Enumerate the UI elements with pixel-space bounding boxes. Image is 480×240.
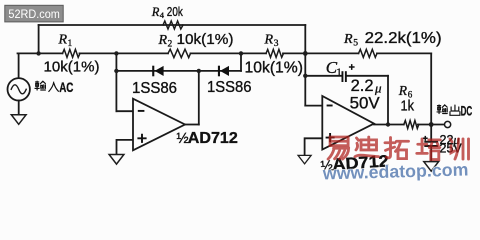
svg-text:½: ½ (177, 131, 189, 147)
svg-text:4: 4 (160, 10, 165, 20)
svg-text:10k(1%): 10k(1%) (177, 31, 234, 48)
svg-text:R: R (343, 32, 353, 47)
svg-text:10k(1%): 10k(1%) (44, 59, 100, 76)
svg-text:R: R (264, 33, 274, 48)
svg-text:5: 5 (353, 39, 358, 49)
svg-text:AC: AC (59, 80, 73, 95)
svg-text:R: R (58, 33, 68, 48)
svg-text:www.edatop.com: www.edatop.com (322, 159, 469, 183)
svg-text:3: 3 (274, 39, 279, 49)
svg-text:20k: 20k (167, 5, 184, 19)
svg-text:2.2μ: 2.2μ (351, 77, 382, 95)
svg-text:50V: 50V (350, 94, 380, 112)
svg-text:R: R (151, 5, 160, 19)
svg-text:10k(1%): 10k(1%) (245, 59, 304, 76)
svg-text:22.2k(1%): 22.2k(1%) (365, 30, 442, 47)
svg-text:1: 1 (336, 67, 342, 79)
svg-text:1SS86: 1SS86 (132, 80, 177, 97)
svg-text:52RD.com: 52RD.com (8, 7, 60, 21)
svg-text:1k: 1k (401, 98, 415, 115)
svg-text:R: R (398, 83, 408, 98)
svg-text:1: 1 (68, 39, 73, 49)
svg-text:1SS86: 1SS86 (207, 79, 252, 96)
svg-text:AD712: AD712 (188, 130, 238, 147)
svg-text:R: R (158, 33, 168, 48)
svg-text:DC: DC (461, 104, 473, 119)
svg-text:2: 2 (168, 40, 173, 50)
